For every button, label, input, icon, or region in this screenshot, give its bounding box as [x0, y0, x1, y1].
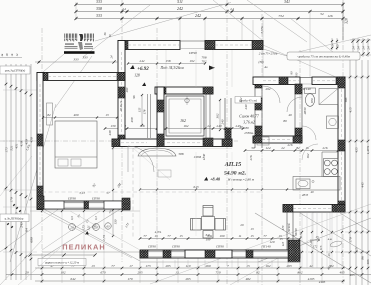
elevation marker terrace — [85, 231, 89, 234]
extra horizontal guide y148.5 — [112, 148, 232, 150]
svg-text:521: 521 — [10, 145, 14, 151]
svg-text:192: 192 — [60, 270, 65, 274]
terrace sill line — [42, 251, 140, 253]
axis x=343 — [342, 0, 344, 285]
kitchen counter horizontal — [293, 177, 340, 191]
washbasin — [327, 116, 339, 129]
pier bath top right — [336, 77, 345, 85]
svg-text:139: 139 — [111, 124, 116, 128]
svg-text:240: 240 — [244, 104, 248, 109]
svg-text:670: 670 — [100, 270, 105, 274]
shower corner with diagonal — [319, 89, 338, 105]
svg-text:115: 115 — [355, 247, 359, 252]
svg-text:з6: з6 — [11, 53, 14, 57]
svg-text:11: 11 — [238, 234, 241, 238]
dashed vertical x133 — [132, 148, 134, 238]
window ПГ90 a — [64, 202, 84, 204]
dim line living y189 — [140, 189, 300, 191]
svg-text:1Ю0: 1Ю0 — [202, 153, 206, 160]
svg-text:400: 400 — [74, 113, 79, 117]
wall: living right wall x287 — [286, 212, 288, 252]
svg-text:80: 80 — [245, 126, 249, 130]
wall: bath top band — [253, 77, 300, 85]
svg-text:96: 96 — [132, 95, 136, 99]
diagonal living room (faint, short) — [133, 148, 170, 180]
pier bedroom bottom-left corner — [37, 196, 44, 209]
interior dim col x113 bedroom right — [112, 148, 114, 236]
left dim horizontal extension lines — [3, 89, 37, 91]
extension verticals wall->bottom dims — [61, 210, 63, 258]
diagonals bottom-right — [255, 213, 371, 283]
pier bottom 1 — [140, 250, 148, 258]
pier bottom 3 — [246, 250, 253, 258]
svg-text:ПГ90: ПГ90 — [91, 197, 100, 201]
pier right outer mid — [338, 140, 345, 151]
svg-text:192: 192 — [190, 59, 195, 63]
svg-text:40: 40 — [311, 190, 315, 194]
elevation marker shaft — [142, 82, 146, 86]
right top extension — [342, 2, 344, 40]
svg-text:25: 25 — [336, 44, 340, 48]
svg-text:29: 29 — [25, 270, 29, 274]
svg-text:90: 90 — [290, 71, 294, 75]
top dimension line row 2 — [76, 11, 343, 13]
svg-text:128: 128 — [134, 74, 140, 78]
svg-text:158: 158 — [166, 59, 171, 63]
pier shaft left bottom — [157, 134, 164, 146]
svg-text:7: 7 — [227, 264, 229, 268]
svg-text:82: 82 — [256, 270, 260, 274]
svg-text:63: 63 — [107, 224, 111, 228]
svg-text:77: 77 — [143, 234, 147, 238]
elevation +6.92 — [130, 65, 135, 69]
pier bedroom top-left — [37, 73, 48, 81]
door arc bath mid — [287, 97, 302, 112]
svg-text:13: 13 — [91, 264, 95, 268]
svg-text:260: 260 — [205, 264, 210, 268]
svg-text:82: 82 — [296, 146, 300, 150]
svg-text:162: 162 — [306, 153, 310, 158]
svg-text:36: 36 — [103, 32, 107, 36]
svg-text:24: 24 — [367, 46, 371, 50]
axis x=157 — [156, 28, 158, 274]
wall: bath top band right segment — [312, 77, 345, 85]
top dimension line row 1 — [76, 4, 343, 6]
wall: bath mid wall x295 — [294, 84, 296, 140]
top dimension line row 3 — [76, 18, 343, 20]
svg-text:600: 600 — [30, 237, 34, 243]
pier bedroom bottom right — [122, 198, 130, 210]
svg-text:242: 242 — [140, 59, 145, 63]
wall: core left wall — [118, 41, 125, 147]
extra terrace diagonals — [42, 211, 132, 258]
pier top-right corner — [252, 41, 263, 50]
svg-text:115: 115 — [281, 241, 285, 246]
bottom dim lines — [30, 254, 95, 256]
wall: core top band right segment — [205, 41, 263, 50]
dashed line living y192 — [42, 191, 262, 193]
bottom label box — [38, 259, 86, 266]
diagonal leader top-right — [213, 0, 263, 41]
pier bath mid top — [295, 84, 302, 94]
pier bath mid low — [295, 128, 302, 140]
svg-text:77: 77 — [111, 264, 115, 268]
svg-text:24: 24 — [230, 7, 234, 11]
svg-text:Ав: Ав — [263, 65, 268, 69]
svg-text:80: 80 — [283, 119, 287, 123]
svg-text:511: 511 — [177, 0, 183, 4]
svg-text:240: 240 — [221, 119, 225, 124]
svg-text:79: 79 — [109, 210, 113, 214]
svg-text:358: 358 — [96, 6, 102, 11]
wall: bedroom left wall — [37, 73, 43, 210]
kitchen counter vertical edge — [321, 152, 323, 177]
svg-text:170: 170 — [349, 237, 353, 243]
wall: bath top window ПГ140 — [300, 77, 312, 79]
toilet — [305, 88, 316, 94]
svg-text:180: 180 — [310, 98, 314, 103]
dining chair top — [203, 206, 213, 217]
pier right outer bottom — [338, 201, 345, 212]
svg-text:445: 445 — [361, 182, 365, 188]
diagonal leader top-left — [95, 3, 231, 42]
svg-text:173: 173 — [145, 264, 150, 268]
svg-text:405: 405 — [350, 273, 355, 277]
extension verticals for top dims — [75, 2, 77, 20]
beam note box right — [287, 52, 360, 60]
svg-text:ПГ90б: ПГ90б — [287, 223, 291, 233]
pier core left mid — [118, 87, 125, 98]
dining chair right — [215, 219, 226, 231]
svg-text:4105: 4105 — [319, 280, 326, 284]
window sill d — [253, 251, 288, 253]
svg-text:333: 333 — [96, 13, 102, 18]
axis x=262 — [261, 14, 263, 285]
svg-text:13: 13 — [154, 234, 158, 238]
stamp logo top-left — [64, 34, 95, 54]
left label box 2 — [0, 214, 29, 222]
svg-text:2Ю0: 2Ю0 — [303, 107, 307, 114]
wall: top opening window ПГ90 — [180, 40, 205, 42]
svg-text:333: 333 — [82, 56, 87, 60]
diagonal to beam box — [298, 35, 371, 52]
bed — [55, 121, 97, 168]
washer bottom left of bath — [257, 137, 269, 145]
extra verticals top hall — [165, 50, 167, 87]
small right top dims — [352, 38, 354, 57]
svg-text:150: 150 — [114, 219, 118, 224]
svg-text:+8.40: +8.40 — [210, 177, 221, 182]
axis x=42 — [41, 28, 43, 283]
shaft right wall line b — [209, 94, 211, 138]
shaft inner rect — [166, 96, 204, 136]
window ПГ90 b — [89, 202, 105, 204]
svg-text:ПЕЛИКАН: ПЕЛИКАН — [62, 243, 106, 252]
sofa — [138, 148, 176, 156]
svg-text:292: 292 — [266, 87, 271, 91]
dash-dot y252 bottom right — [290, 251, 371, 253]
wall: bath bottom band — [253, 136, 302, 143]
svg-text:2 см 75×25см: 2 см 75×25см — [259, 52, 278, 56]
svg-text:13: 13 — [175, 270, 179, 274]
svg-text:451: 451 — [15, 143, 19, 149]
svg-text:57: 57 — [106, 191, 110, 195]
svg-text:482: 482 — [245, 277, 250, 281]
pier bedroom bottom mid — [84, 201, 89, 209]
dining chair left — [191, 219, 202, 231]
svg-text:24: 24 — [122, 7, 126, 11]
svg-text:216: 216 — [323, 146, 328, 150]
svg-text:24: 24 — [357, 46, 361, 50]
pier shaft bottom-right — [203, 138, 213, 146]
svg-text:6,3: 6,3 — [94, 216, 98, 220]
svg-text:124: 124 — [266, 146, 271, 150]
dining chair bottom — [203, 231, 213, 239]
pier divider low — [255, 126, 262, 138]
shaft right wall line a — [205, 94, 207, 138]
svg-text:643: 643 — [194, 185, 199, 189]
svg-text:199: 199 — [206, 238, 211, 242]
pier corridor right wall — [225, 128, 231, 139]
svg-text:42: 42 — [309, 264, 313, 268]
svg-text:260: 260 — [125, 87, 129, 92]
interior dim col x220 — [219, 100, 221, 130]
arrow marker hall — [209, 66, 215, 71]
verticals below kitchen — [301, 213, 303, 268]
svg-text:216: 216 — [249, 155, 253, 160]
svg-text:265: 265 — [185, 277, 190, 281]
pier bath top mid — [279, 77, 288, 85]
bottom extension verticals — [41, 258, 43, 283]
svg-text:АП.15: АП.15 — [224, 161, 242, 168]
right dim horizontal extension lines — [345, 76, 369, 78]
axis x=122 — [121, 0, 123, 262]
interior dim line y128 — [105, 128, 245, 130]
svg-text:162: 162 — [265, 264, 270, 268]
diagonal terrace X bottom-left — [42, 208, 140, 261]
svg-text:333: 333 — [96, 0, 102, 4]
pier bottom right column — [288, 240, 300, 262]
svg-text:120: 120 — [270, 240, 275, 244]
pier top mid — [205, 41, 215, 50]
svg-text:86: 86 — [361, 256, 365, 260]
svg-text:29: 29 — [240, 223, 244, 227]
pier bottom mid dark — [205, 250, 215, 258]
svg-text:24: 24 — [362, 46, 366, 50]
svg-text:2Ю5: 2Ю5 — [302, 193, 309, 197]
svg-text:15: 15 — [327, 253, 331, 257]
svg-text:155: 155 — [138, 107, 142, 112]
beam note leader — [263, 49, 287, 56]
svg-text:15: 15 — [179, 234, 183, 238]
svg-text:734: 734 — [278, 14, 284, 18]
svg-text:+6.92: +6.92 — [137, 67, 149, 72]
svg-text:50: 50 — [251, 146, 255, 150]
svg-text:22: 22 — [281, 146, 285, 150]
svg-text:4105: 4105 — [308, 277, 315, 281]
svg-text:24: 24 — [352, 46, 356, 50]
dining table — [202, 217, 215, 230]
svg-text:242: 242 — [177, 6, 183, 11]
svg-text:203: 203 — [286, 264, 291, 268]
wardrobe left — [47, 103, 53, 125]
left label box 1 — [0, 66, 30, 74]
svg-text:405: 405 — [366, 259, 370, 264]
terrace outer line — [140, 261, 300, 263]
svg-text:435: 435 — [355, 147, 359, 153]
bottom wall window seg — [185, 250, 232, 258]
svg-text:205: 205 — [165, 264, 170, 268]
pier core top-left corner — [118, 41, 128, 50]
pier kitchen bottom right — [332, 205, 345, 213]
wall: corridor right wall x225 — [224, 98, 226, 139]
pier divider mid — [255, 98, 262, 110]
window sill c — [232, 251, 246, 253]
shaft top band — [155, 87, 213, 94]
svg-text:199: 199 — [220, 234, 225, 238]
pier bedroom left low — [37, 186, 43, 197]
svg-text:100: 100 — [295, 72, 299, 77]
svg-text:642: 642 — [70, 277, 75, 281]
pier corridor left — [112, 139, 120, 147]
svg-text:ПГ90: ПГ90 — [67, 197, 76, 201]
svg-text:170: 170 — [10, 197, 14, 203]
shaft symbol line — [186, 96, 188, 105]
svg-text:ПГ140: ПГ140 — [260, 245, 271, 249]
small dims x332,337 — [331, 38, 333, 50]
wall: right outer wall — [338, 77, 345, 212]
kitchen sink — [296, 179, 310, 189]
shaft inner rect 2 — [169, 99, 201, 133]
svg-text:15: 15 — [279, 237, 283, 241]
extension verticals living room — [139, 152, 141, 236]
svg-text:82: 82 — [47, 113, 51, 117]
svg-text:641: 641 — [206, 233, 211, 237]
svg-text:333: 333 — [73, 58, 78, 62]
wall: bedroom bottom band — [37, 201, 130, 209]
svg-text:77: 77 — [263, 234, 267, 238]
svg-text:1330м.: 1330м. — [244, 131, 254, 135]
pier corridor right block — [222, 139, 232, 147]
svg-text:64: 64 — [25, 228, 29, 232]
pier bedroom left mid — [37, 134, 43, 146]
svg-text:ПГ90: ПГ90 — [188, 51, 197, 55]
duct wall x147 — [147, 94, 149, 138]
pier shaft top-left — [157, 87, 166, 94]
svg-text:320: 320 — [344, 18, 349, 24]
svg-text:162: 162 — [184, 124, 189, 128]
wall: kitchen bottom band — [283, 205, 345, 213]
svg-text:115: 115 — [319, 245, 323, 250]
interior dim line y150 right — [245, 150, 345, 152]
masonry seg bedroom bottom — [44, 201, 64, 209]
svg-text:405: 405 — [339, 270, 344, 274]
svg-text:178: 178 — [143, 109, 147, 114]
left tick dot cluster — [13, 204, 15, 206]
pier shaft top-right — [203, 87, 213, 94]
dim row y63 hall — [128, 63, 205, 65]
svg-text:29: 29 — [94, 225, 98, 229]
pier shaft left mid — [157, 100, 164, 112]
svg-text:438: 438 — [108, 130, 112, 135]
svg-text:24: 24 — [207, 124, 211, 128]
svg-text:(30): (30) — [259, 60, 264, 64]
svg-text:179: 179 — [127, 277, 132, 281]
svg-text:243: 243 — [20, 222, 24, 228]
svg-text:77: 77 — [167, 234, 171, 238]
svg-text:242: 242 — [195, 13, 201, 18]
svg-text:52: 52 — [320, 12, 324, 16]
dim line y62 above bedroom — [35, 61, 118, 63]
pier right outer top — [338, 77, 345, 88]
masonry seg bedroom bottom 2 — [104, 201, 122, 209]
svg-text:13: 13 — [108, 34, 112, 38]
svg-text:4Е/90: 4Е/90 — [294, 228, 298, 236]
svg-text:24: 24 — [110, 55, 114, 59]
svg-text:ПГ90: ПГ90 — [215, 245, 224, 249]
svg-text:в.а.: в.а. — [328, 237, 333, 241]
left top small line y57 — [0, 57, 22, 59]
axis x=227 — [226, 0, 228, 285]
svg-text:302: 302 — [239, 97, 243, 102]
svg-text:40: 40 — [288, 113, 292, 117]
svg-text:ПГ90: ПГ90 — [171, 245, 180, 249]
svg-text:15: 15 — [250, 234, 254, 238]
door arc bedroom — [128, 146, 154, 172]
wall: core top band left segment — [118, 41, 180, 50]
svg-text:410: 410 — [20, 141, 24, 147]
svg-text:415: 415 — [349, 107, 353, 113]
coffee table — [158, 170, 171, 177]
window sill b — [171, 251, 185, 253]
terrace line under bedroom — [30, 210, 140, 212]
right dim vertical lines — [349, 60, 351, 285]
svg-text:588: 588 — [179, 152, 184, 156]
svg-text:438: 438 — [30, 137, 34, 143]
pier bath bottom right — [293, 136, 302, 143]
svg-text:40: 40 — [239, 125, 243, 129]
interior dim line above bottom wall — [140, 238, 300, 240]
svg-text:302: 302 — [216, 113, 220, 118]
pier divider top — [255, 77, 262, 88]
axis x=300 — [299, 50, 301, 285]
svg-text:216: 216 — [288, 143, 293, 147]
left dim vertical lines — [5, 64, 7, 280]
bottom-left corner diagonals — [0, 240, 42, 285]
pier bedroom top-right — [117, 73, 125, 81]
door arc kitchen — [302, 144, 318, 160]
svg-text:458: 458 — [130, 117, 134, 122]
svg-text:13: 13 — [105, 113, 109, 117]
pier kitchen bottom left — [283, 205, 293, 213]
door arc bath left — [263, 86, 280, 103]
dim row y117 bedroom — [43, 117, 117, 119]
pier bottom 2 — [163, 250, 171, 258]
pier core left low — [118, 135, 125, 147]
stove — [324, 159, 339, 177]
axis y=141 — [0, 140, 238, 142]
svg-text:6,5: 6,5 — [70, 216, 74, 220]
svg-text:341: 341 — [284, 0, 290, 4]
window sill a — [148, 251, 163, 253]
svg-text:507: 507 — [206, 41, 211, 45]
svg-text:17: 17 — [129, 264, 133, 268]
shaft left wall — [157, 87, 164, 146]
wall: bedroom top band — [37, 73, 125, 81]
pier bath bottom left — [253, 136, 262, 143]
shower door arc — [302, 126, 316, 140]
svg-text:450: 450 — [25, 139, 29, 145]
